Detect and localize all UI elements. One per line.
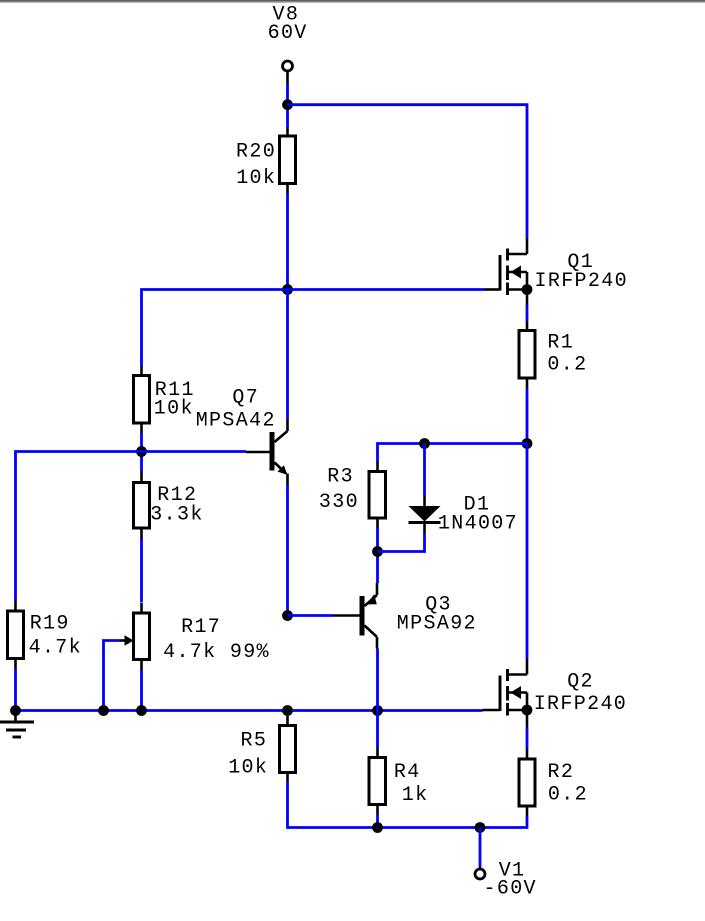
svg-text:0.2: 0.2: [548, 784, 588, 807]
svg-text:1N4007: 1N4007: [438, 512, 518, 535]
svg-text:R2: R2: [548, 761, 575, 784]
mosfet Q2: [483, 659, 528, 728]
junction wiper: [98, 705, 109, 716]
resistor R19: [8, 601, 24, 669]
svg-text:Q7: Q7: [232, 387, 259, 410]
svg-text:60V: 60V: [268, 22, 308, 45]
junction R4 bottom rail: [372, 822, 383, 833]
wire R19 to ground: [14, 669, 17, 711]
wire Q3 collector down: [376, 649, 379, 711]
wire R3 top rail: [378, 444, 528, 463]
junction right rail at y443: [522, 438, 533, 449]
junction at V8 rail: [282, 99, 293, 110]
resistor R12: [134, 471, 150, 539]
svg-text:MPSA92: MPSA92: [397, 612, 477, 635]
svg-text:IRFP240: IRFP240: [534, 693, 627, 716]
potentiometer R17: [120, 603, 150, 671]
resistor R1: [519, 322, 535, 389]
wire R17 bottom to ground rail: [140, 671, 143, 711]
mosfet Q1: [485, 238, 528, 305]
junction base rail: [136, 446, 147, 457]
svg-text:MPSA42: MPSA42: [196, 410, 276, 433]
wire Q3 emitter up: [376, 552, 379, 584]
junction gate rail: [282, 284, 293, 295]
junction R3-D1-Q3: [372, 546, 383, 557]
svg-text:R17: R17: [181, 616, 221, 639]
svg-text:4.7k 99%: 4.7k 99%: [163, 641, 270, 664]
wire gate rail horizontal: [142, 290, 485, 367]
diode D1: [409, 496, 441, 534]
wire R3 bottom to emitter junction: [376, 528, 379, 552]
svg-text:IRFP240: IRFP240: [535, 270, 628, 293]
resistor R5: [280, 716, 296, 782]
svg-text:10k: 10k: [236, 167, 276, 190]
V8 terminal: [283, 61, 293, 84]
transistor Q3: [333, 583, 377, 649]
junction center rail ground: [282, 705, 293, 716]
svg-text:R5: R5: [241, 729, 268, 752]
wire Q7 collector: [286, 290, 289, 420]
junction D1 anode: [419, 438, 430, 449]
junction V1 tap: [475, 822, 486, 833]
resistor R11: [134, 367, 150, 434]
svg-text:R1: R1: [547, 332, 574, 355]
svg-text:10k: 10k: [228, 757, 268, 780]
resistor R3: [369, 462, 386, 528]
wire Q2 source to R2: [526, 728, 529, 750]
wire ground rail: [16, 709, 483, 712]
svg-text:R3: R3: [327, 466, 354, 489]
svg-text:330: 330: [319, 491, 359, 514]
junction R17 bottom: [136, 705, 147, 716]
wire Q3 base: [288, 614, 334, 617]
wire base rail horizontal: [16, 452, 247, 602]
wire R12 to R17: [140, 539, 143, 603]
svg-text:1k: 1k: [402, 784, 429, 807]
wire right rail down to Q2 drain: [526, 444, 529, 659]
svg-text:-60V: -60V: [484, 878, 537, 901]
svg-text:10k: 10k: [154, 398, 194, 421]
junction ground rail left: [10, 705, 21, 716]
wire R20 to gate rail junction: [286, 194, 289, 290]
resistor R20: [280, 127, 296, 194]
svg-text:R19: R19: [30, 612, 70, 635]
transistor Q7: [246, 420, 288, 486]
wire top horizontal to Q1 drain column: [288, 105, 528, 238]
wire V8 to junction: [286, 84, 289, 127]
wire R11 to base rail junction: [140, 433, 143, 471]
window top edge: [0, 0, 705, 3]
svg-text:R20: R20: [236, 141, 276, 164]
wire V1 drop: [479, 828, 482, 867]
junction Q1 source-body: [522, 284, 533, 295]
wire R17 wiper: [104, 641, 121, 711]
wire D1 anode column: [423, 444, 426, 497]
wire R2 bottom rail: [288, 782, 528, 828]
svg-text:Q2: Q2: [567, 671, 594, 694]
ground: [0, 711, 34, 738]
wire Q7 emitter down: [286, 485, 289, 616]
svg-text:R4: R4: [394, 761, 421, 784]
svg-text:4.7k: 4.7k: [29, 637, 82, 660]
junction Q2 source-body: [522, 705, 533, 716]
resistor R4: [369, 748, 386, 815]
wire R4 bottom to rail: [376, 815, 379, 828]
resistor R2: [519, 749, 535, 817]
junction Q3 collector rail: [372, 705, 383, 716]
V1 terminal: [475, 867, 485, 880]
junction Q3 base: [282, 610, 293, 621]
svg-text:3.3k: 3.3k: [150, 504, 203, 527]
wire R4 top: [376, 711, 379, 749]
svg-text:0.2: 0.2: [547, 353, 587, 376]
wire D1 cathode to junction: [378, 534, 425, 552]
wire R1 to D1 rail: [526, 388, 529, 444]
wire Q1 source to R1: [526, 305, 529, 322]
